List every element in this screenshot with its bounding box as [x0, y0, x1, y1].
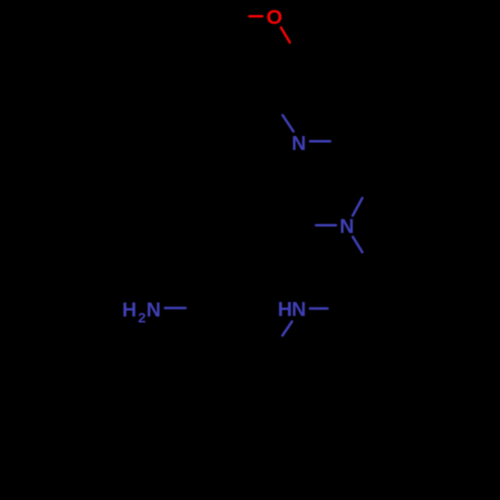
svg-text:N: N	[340, 216, 354, 238]
bond N3-C (nitrogen half, horizontal right)	[310, 307, 328, 310]
svg-text:2: 2	[138, 311, 146, 327]
bond N1-C (nitrogen half, horizontal right)	[310, 140, 330, 143]
svg-text:N: N	[146, 299, 160, 321]
svg-text:N: N	[292, 299, 306, 321]
bond O-CH2 (oxygen half)	[281, 28, 290, 43]
bond N4-C (nitrogen half, horizontal right)	[165, 307, 186, 310]
bond N3-C (nitrogen half, down-left diagonal)	[283, 322, 293, 336]
bond CH3-O (oxygen half)	[249, 15, 262, 18]
svg-text:N: N	[292, 133, 306, 155]
svg-text:H: H	[278, 299, 292, 321]
bond C-N2 (nitrogen half, up-right diagonal)	[353, 198, 363, 216]
bond N2-C (nitrogen half, horizontal left)	[316, 224, 336, 227]
svg-text:O: O	[266, 6, 282, 29]
bond C-N1 (nitrogen half, upper-left diagonal)	[283, 115, 294, 131]
svg-text:H: H	[122, 299, 136, 321]
bond N2-C (nitrogen half, down-right diagonal)	[353, 237, 363, 252]
